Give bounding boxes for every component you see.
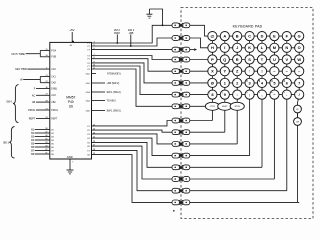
svg-text:PROG: PROG bbox=[51, 110, 58, 112]
key , (row 6 col 5) bbox=[257, 90, 266, 99]
svg-text:U6: U6 bbox=[69, 104, 73, 108]
node B7 wire to U6 bbox=[31, 149, 50, 152]
wire matrix row 6 bus bbox=[212, 94, 299, 96]
key : (row 6 col 3) bbox=[233, 90, 242, 99]
connector pair J1-11 on feed row bbox=[172, 142, 190, 147]
svg-text:Q: Q bbox=[223, 57, 226, 62]
wire Y4 U6 to row feed 4 bbox=[92, 56, 173, 60]
svg-text:←: ← bbox=[297, 69, 301, 74]
svg-text:W: W bbox=[297, 57, 301, 62]
wire column feed 14 to matrix column 6 bbox=[190, 178, 275, 180]
node PROG wire to U6 bbox=[28, 108, 50, 112]
key O (row 2 col 8) bbox=[295, 43, 304, 52]
svg-text:P40: P40 bbox=[68, 100, 74, 104]
svg-text:+5V: +5V bbox=[69, 28, 74, 32]
connector pair J1-3 on feed row bbox=[172, 47, 190, 52]
svg-text:GND: GND bbox=[67, 155, 73, 159]
svg-text:KEYBOARD PAD: KEYBOARD PAD bbox=[233, 24, 263, 28]
wire matrix column 5 bus bbox=[261, 36, 263, 167]
svg-text:POA: POA bbox=[51, 49, 56, 52]
key F (row 1 col 7) bbox=[282, 31, 291, 40]
node B5 wire to U6 bbox=[31, 142, 50, 145]
svg-text:+KB (SW-2): +KB (SW-2) bbox=[107, 82, 120, 85]
key N (row 2 col 7) bbox=[282, 43, 291, 52]
net SW-1 (SW-2) at U6 pin bbox=[92, 91, 121, 94]
svg-text:X: X bbox=[211, 69, 214, 74]
key R (row 3 col 3) bbox=[233, 55, 242, 64]
wire matrix column 4 bus bbox=[249, 36, 251, 156]
svg-text:S: S bbox=[248, 57, 251, 62]
U6 right edge pin numbers bbox=[93, 41, 96, 155]
svg-text:7: 7 bbox=[298, 80, 300, 85]
connector pair J1-15 on feed row bbox=[172, 188, 190, 193]
wire matrix column 7 bus bbox=[286, 36, 288, 191]
connector pair J1-9 on feed row bbox=[172, 118, 190, 123]
net TO KB-2 at U6 pin bbox=[92, 100, 117, 103]
key G (row 1 col 8) bbox=[295, 31, 304, 40]
connector pair J1-14 on feed row bbox=[172, 177, 190, 182]
key I (row 2 col 2) bbox=[220, 43, 229, 52]
U6 internal pin labels (right edge) bbox=[86, 43, 91, 157]
node B4 wire to U6 bbox=[31, 139, 50, 142]
wire row feed 2 into matrix row 2 bbox=[190, 38, 208, 48]
svg-text:U: U bbox=[273, 57, 276, 62]
wire matrix row 3 bus bbox=[212, 59, 299, 61]
power +5V to U6 pin 40 bbox=[69, 28, 74, 47]
wire Y2 U6 to row feed 2 (riser) bbox=[92, 38, 173, 46]
key H (row 2 col 1) bbox=[208, 43, 217, 52]
key Q (row 3 col 2) bbox=[220, 55, 229, 64]
wire column feed 15 to matrix column 7 bbox=[190, 190, 287, 192]
svg-text:R: R bbox=[236, 57, 239, 62]
wire Y7 U6 to row feed 7 bbox=[92, 66, 173, 95]
key ; (row 6 col 4) bbox=[245, 90, 254, 99]
key Z (row 4 col 3) bbox=[233, 67, 242, 76]
connector pair J1-2 on feed row bbox=[172, 36, 190, 41]
connector pair J1-10 on feed row bbox=[172, 130, 190, 135]
svg-text:(: ( bbox=[209, 92, 210, 95]
wire ground to row-1 feed bbox=[149, 9, 163, 26]
svg-text:CK8: CK8 bbox=[51, 83, 56, 85]
wire Y3 U6 straight to row feed 3 bbox=[92, 49, 173, 51]
key @ (row 1 col 1) bbox=[208, 31, 217, 40]
key CR (extra, col 8) bbox=[294, 118, 302, 126]
U6 internal pin labels (left edge) bbox=[51, 49, 58, 156]
connector pair J1-6 on feed row bbox=[172, 81, 190, 86]
svg-text:H: H bbox=[211, 45, 214, 50]
key 8 (row 6 col 1) bbox=[208, 90, 217, 99]
svg-text:CK2: CK2 bbox=[51, 69, 56, 71]
svg-text:L8B: L8B bbox=[129, 31, 134, 35]
wire column feed 11 to matrix column 3 bbox=[190, 143, 237, 145]
wire row feed 5 into matrix row 3 bbox=[190, 70, 208, 72]
key LF (extra, col 8) bbox=[294, 105, 302, 113]
svg-text:K: K bbox=[248, 45, 251, 50]
node B3 wire to U6 bbox=[31, 135, 50, 138]
svg-text:21: 21 bbox=[46, 75, 48, 77]
svg-text:CTRL: CTRL bbox=[210, 106, 216, 108]
key 6 (row 5 col 7) bbox=[282, 78, 291, 87]
wire row feed 6 into matrix row 4 bbox=[190, 82, 208, 84]
node AB wire to U6 bbox=[32, 101, 50, 105]
key A (row 1 col 2) bbox=[220, 31, 229, 40]
wire matrix row 2 bus bbox=[212, 47, 299, 49]
key 1 (row 5 col 2) bbox=[220, 78, 229, 87]
wire matrix column 1 bus bbox=[211, 36, 213, 120]
brace group SW-1 bbox=[6, 84, 18, 122]
svg-text:Ø: Ø bbox=[211, 80, 214, 85]
svg-text:B8 1: B8 1 bbox=[3, 141, 9, 145]
wire row feed 3 arrow stub bbox=[190, 48, 197, 51]
key &#8722; (row 6 col 6) bbox=[270, 90, 279, 99]
svg-text:CK1: CK1 bbox=[51, 76, 56, 78]
key . (row 6 col 7) bbox=[282, 90, 291, 99]
svg-text:SW-1 (SW-2): SW-1 (SW-2) bbox=[107, 110, 121, 113]
svg-text:↑: ↑ bbox=[249, 69, 251, 74]
svg-text:P: P bbox=[211, 57, 214, 62]
svg-text:.: . bbox=[286, 92, 287, 97]
svg-text:V: V bbox=[285, 57, 288, 62]
svg-text:!: ! bbox=[261, 69, 262, 74]
wire X3 U6 to column feed 3 bbox=[92, 134, 173, 144]
key U (row 3 col 6) bbox=[270, 55, 279, 64]
wire matrix column 6 bus bbox=[273, 36, 275, 179]
key M (row 2 col 6) bbox=[270, 43, 279, 52]
ground (top, keyboard common) bbox=[146, 9, 152, 18]
node B8 wire to U6 bbox=[31, 153, 50, 156]
key C (row 1 col 4) bbox=[245, 31, 254, 40]
key 2 (row 5 col 3) bbox=[233, 78, 242, 87]
key S (row 3 col 4) bbox=[245, 55, 254, 64]
node REPT wire to U6 bbox=[29, 117, 50, 121]
key L (row 2 col 5) bbox=[257, 43, 266, 52]
node B6 wire to U6 bbox=[31, 146, 50, 149]
wire Y8 U6 to row feed 8 bbox=[92, 69, 173, 106]
svg-text:22: 22 bbox=[46, 81, 48, 83]
connector pair J1-1 on feed row bbox=[172, 23, 190, 28]
wire row feed 1 into matrix row 1 bbox=[190, 25, 208, 36]
svg-text:AB2: AB2 bbox=[51, 101, 56, 104]
svg-text:D: D bbox=[261, 34, 264, 39]
key 7 (row 5 col 8) bbox=[295, 78, 304, 87]
svg-text:ENBL: ENBL bbox=[51, 88, 58, 90]
svg-text:G: G bbox=[298, 34, 301, 39]
svg-text:B: B bbox=[236, 34, 239, 39]
svg-text:,: , bbox=[261, 92, 262, 97]
svg-text:SW-1 (SW-2): SW-1 (SW-2) bbox=[107, 91, 121, 94]
wire X4 U6 to column feed 4 bbox=[92, 138, 173, 156]
svg-text:MM57: MM57 bbox=[66, 96, 75, 100]
key &#8722; (row 4 col 7) bbox=[282, 67, 291, 76]
wire X6 U6 to column feed 6 bbox=[92, 146, 173, 179]
wire X8 U6 to column feed 8 bbox=[92, 155, 173, 203]
svg-text:C: C bbox=[248, 34, 251, 39]
svg-text:*: * bbox=[234, 92, 235, 95]
wire Y6 U6 to row feed 6 bbox=[92, 63, 173, 83]
wire matrix row 5 bus bbox=[212, 82, 299, 84]
svg-text:O: O bbox=[298, 45, 301, 50]
key SHFT (row 7 oval) bbox=[218, 102, 232, 110]
wire matrix column 8 bus bbox=[298, 36, 300, 202]
wire X7 U6 to column feed 7 bbox=[92, 150, 173, 190]
wire X1 U6 to column feed 1 bbox=[92, 121, 173, 126]
wire row feed 7 into matrix row 5 bbox=[190, 94, 208, 96]
key SPCE (row 7 oval) bbox=[230, 102, 244, 110]
key E (row 1 col 6) bbox=[270, 31, 279, 40]
svg-text:A: A bbox=[223, 34, 226, 39]
wire column feed 12 to matrix column 4 bbox=[190, 155, 250, 157]
wire column feed 16 to matrix column 8 bbox=[190, 201, 299, 203]
svg-text:PROG: PROG bbox=[28, 109, 35, 112]
wire matrix row 7 bus bbox=[212, 105, 237, 107]
wire row feed 4 into matrix row 2 bbox=[190, 59, 208, 61]
key Y (row 4 col 2) bbox=[220, 67, 229, 76]
node KEY-PAD wire to U6 clock pin bbox=[15, 67, 50, 71]
node DATA RDY wire to U6 pins 15-16 bbox=[11, 49, 49, 57]
svg-text:AB: AB bbox=[32, 101, 36, 104]
key &#8592; (row 4 col 8) bbox=[295, 67, 304, 76]
wire column feed 9 to matrix column 1 bbox=[190, 120, 213, 122]
key P (row 3 col 1) bbox=[208, 55, 217, 64]
connector pair J1-16 on feed row bbox=[172, 200, 190, 205]
svg-text:ON 5 TIME: ON 5 TIME bbox=[11, 52, 25, 56]
svg-text:ATOM (KEY): ATOM (KEY) bbox=[107, 73, 121, 76]
svg-text:PUB: PUB bbox=[51, 57, 56, 59]
wire U6 GND pin to ground bbox=[67, 155, 74, 170]
resistor R2 2.2M net label bbox=[114, 28, 120, 44]
node B1 wire to U6 bbox=[31, 128, 50, 131]
wire Y5 U6 to row feed 5 bbox=[92, 59, 173, 71]
svg-text:SW 1: SW 1 bbox=[6, 100, 13, 104]
svg-text:15: 15 bbox=[46, 49, 48, 51]
wire matrix column 3 bus bbox=[236, 36, 238, 144]
svg-text:R0M: R0M bbox=[114, 31, 119, 35]
svg-text:N: N bbox=[285, 45, 288, 50]
svg-text:3: 3 bbox=[46, 68, 47, 70]
net SW-1 (SW-2) at U6 pin bbox=[92, 110, 121, 113]
svg-text:REPT: REPT bbox=[29, 118, 36, 121]
svg-text:E: E bbox=[273, 34, 276, 39]
wire X5 U6 to column feed 5 bbox=[92, 142, 173, 167]
connector pair J1-5 on feed row bbox=[172, 69, 190, 74]
wire between LF and CR keys bbox=[297, 113, 299, 118]
svg-text:I: I bbox=[224, 45, 225, 50]
junction dot (solder blob lower left of pad) bbox=[173, 210, 175, 212]
wire row feed 8 into matrix row 6 bbox=[190, 105, 208, 107]
brace group B8-1 data outputs bbox=[3, 127, 14, 159]
key K (row 2 col 4) bbox=[245, 43, 254, 52]
wire column feed 13 to matrix column 5 bbox=[190, 166, 262, 168]
key D (row 1 col 5) bbox=[257, 31, 266, 40]
key B (row 1 col 3) bbox=[233, 31, 242, 40]
key W (row 3 col 8) bbox=[295, 55, 304, 64]
key 9 (row 6 col 2) bbox=[220, 90, 229, 99]
svg-text:CR: CR bbox=[296, 122, 300, 124]
label KEYBOARD PAD bbox=[233, 24, 263, 28]
connector pair J1-4 on feed row bbox=[172, 57, 190, 62]
wire X2 U6 to column feed 2 bbox=[92, 130, 173, 132]
svg-text:M: M bbox=[273, 45, 276, 50]
key T (row 3 col 5) bbox=[257, 55, 266, 64]
wire matrix column 2 bus bbox=[224, 36, 226, 132]
resistor R3 100k net label bbox=[128, 28, 135, 47]
wire column feed 10 to matrix column 2 bbox=[190, 131, 225, 133]
key J (row 2 col 3) bbox=[233, 43, 242, 52]
key 5 (row 5 col 6) bbox=[270, 78, 279, 87]
node AC wire to U6 bbox=[32, 94, 50, 98]
key V (row 3 col 7) bbox=[282, 55, 291, 64]
ground (below U6) bbox=[67, 170, 74, 174]
node W wire to U6 pins 21-22 bbox=[20, 75, 50, 83]
key &#8722; (row 4 col 6) bbox=[270, 67, 279, 76]
svg-text:@: @ bbox=[211, 34, 215, 39]
op IC U6 MM5740 keyboard encoder (body) bbox=[50, 42, 92, 159]
svg-text:Y: Y bbox=[223, 69, 226, 74]
wire matrix row 4 bus bbox=[212, 70, 299, 72]
connector pair J1-13 on feed row bbox=[172, 165, 190, 170]
key / (row 6 col 8) bbox=[295, 90, 304, 99]
key ! (row 4 col 5) bbox=[257, 67, 266, 76]
key 4 (row 5 col 5) bbox=[257, 78, 266, 87]
svg-text:16: 16 bbox=[46, 55, 48, 57]
svg-text:SPCE: SPCE bbox=[234, 106, 240, 108]
svg-text:J: J bbox=[236, 45, 238, 50]
svg-text:AC: AC bbox=[32, 94, 36, 97]
connector pair J1-12 on feed row bbox=[172, 153, 190, 158]
keyboard pad enclosure (dashed outline) bbox=[181, 8, 313, 219]
svg-text:TO KB-2: TO KB-2 bbox=[107, 100, 117, 103]
connector pair J1-8 on feed row bbox=[172, 104, 190, 109]
key &#216; (row 5 col 1) bbox=[208, 78, 217, 87]
node F wire to U6 bbox=[34, 87, 50, 91]
key CTRL (row 7 oval) bbox=[205, 102, 219, 110]
node B2 wire to U6 bbox=[31, 132, 50, 135]
key &#8593; (row 4 col 4) bbox=[245, 67, 254, 76]
svg-text:″: ″ bbox=[234, 80, 235, 83]
svg-text:REPT: REPT bbox=[51, 118, 58, 120]
svg-text:SHFT: SHFT bbox=[222, 106, 228, 108]
svg-text::: : bbox=[237, 92, 238, 97]
connector pair J1-7 on feed row bbox=[172, 92, 190, 97]
key 3 (row 5 col 4) bbox=[245, 78, 254, 87]
svg-text:AC2: AC2 bbox=[51, 94, 56, 97]
svg-text:KEY PBD: KEY PBD bbox=[15, 67, 27, 71]
wire Y1 U6 to row feed 1 (riser) bbox=[92, 25, 173, 43]
svg-text:;: ; bbox=[249, 92, 250, 97]
net +KB (SW-2) at U6 pin bbox=[92, 82, 120, 85]
net ATOM (KEY) at U6 pin bbox=[92, 73, 121, 76]
key X (row 4 col 1) bbox=[208, 67, 217, 76]
wire matrix row 1 bus bbox=[212, 35, 299, 37]
